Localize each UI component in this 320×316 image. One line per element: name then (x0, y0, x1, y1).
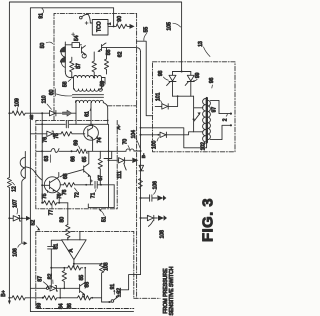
wire 53 to Q73 base (25, 167, 42, 180)
transistor Q74 (84, 125, 99, 140)
svg-text:55: 55 (144, 27, 150, 33)
node junction 160 (108, 159, 110, 161)
wire node feed vertical (41, 113, 43, 203)
svg-text:108: 108 (159, 230, 165, 239)
resistor R86 (60, 296, 101, 300)
wire dashed to pressure switch text (134, 297, 160, 299)
wire secondary leads (210, 100, 231, 139)
svg-text:SENSITIVE SWITCH: SENSITIVE SWITCH (169, 266, 175, 315)
arrow flow indicator 1 (63, 110, 72, 116)
svg-text:77: 77 (48, 210, 54, 216)
transistor Q56 emitter arrow (98, 44, 104, 52)
node junction 42-151 (41, 150, 43, 152)
svg-text:FIG. 3: FIG. 3 (199, 198, 216, 242)
TCO box U-TCO (90, 22, 92, 24)
node junction lead top (75, 100, 77, 102)
svg-text:62: 62 (118, 51, 124, 57)
svg-text:100: 100 (152, 140, 158, 149)
thyristor D111 (109, 158, 132, 170)
capacitor C70 (66, 121, 68, 128)
resistor R-row151 (77, 149, 88, 153)
switch S92 lever (114, 296, 119, 300)
wire op-amp output (74, 260, 102, 264)
svg-text:88: 88 (84, 282, 90, 288)
node junction rail 218 (140, 217, 142, 219)
svg-text:82: 82 (48, 273, 54, 279)
transformer T54 primary winding blobs (64, 42, 66, 71)
resistor R90 (114, 24, 130, 28)
svg-text:96: 96 (209, 77, 215, 83)
svg-text:102: 102 (200, 142, 206, 151)
wire staircase to pressure switch (120, 275, 140, 297)
svg-text:105: 105 (167, 22, 173, 31)
svg-text:80: 80 (59, 217, 65, 223)
transistor Q64 (60, 151, 90, 185)
svg-text:71: 71 (91, 192, 97, 198)
svg-text:12: 12 (11, 186, 17, 192)
svg-text:101: 101 (155, 92, 161, 101)
resistor R12 in rail (7, 178, 11, 188)
svg-text:50: 50 (40, 43, 46, 49)
dashed box 96 ignition module (153, 62, 236, 152)
svg-text:B-: B- (141, 153, 147, 158)
capacitor C106 (141, 195, 157, 201)
svg-text:1: 1 (106, 22, 111, 25)
resistor R84v (62, 268, 66, 289)
svg-text:59: 59 (100, 81, 106, 87)
svg-text:60: 60 (49, 89, 55, 95)
node cross mark (72, 33, 75, 36)
resistor R72 (64, 183, 93, 187)
wire feed from dashed line (137, 41, 153, 116)
transformer T97 core (206, 98, 208, 142)
node junction 58 left (71, 77, 73, 79)
wire row 184.8 (60, 184, 63, 186)
svg-text:89: 89 (37, 303, 43, 309)
node junctions row151 (108, 150, 110, 152)
svg-text:103: 103 (104, 262, 110, 271)
resistor R-base74 (61, 132, 85, 136)
transistor Q55 (82, 46, 86, 55)
node junction 202 right (58, 202, 60, 204)
wire bend box51 corner (88, 185, 114, 208)
wire zener row 288 (30, 287, 50, 289)
svg-text:106: 106 (152, 181, 158, 190)
transformer T59 primary (74, 78, 106, 90)
dashed box 50 partial bottom (108, 105, 137, 107)
svg-text:65: 65 (82, 156, 88, 162)
svg-text:57: 57 (76, 63, 82, 69)
arrow flow indicator 107 (26, 216, 31, 221)
svg-text:68: 68 (63, 173, 69, 179)
capacitor C54a (72, 43, 80, 48)
svg-text:52: 52 (31, 220, 37, 226)
svg-text:109: 109 (15, 98, 21, 107)
svg-text:13: 13 (198, 41, 204, 47)
node junction 58 right (93, 77, 95, 79)
arrow output 106 (157, 195, 166, 201)
svg-text:58: 58 (62, 81, 68, 87)
wire path 127 to core bottom (141, 128, 207, 148)
svg-text:90: 90 (117, 16, 123, 22)
resistor R89 (43, 296, 61, 300)
svg-text:106: 106 (13, 248, 19, 257)
thyristor D99 (185, 72, 194, 97)
wire osc top (65, 44, 81, 46)
svg-text:2: 2 (223, 118, 229, 121)
switch S93 (80, 16, 83, 19)
svg-text:84: 84 (59, 303, 65, 309)
diode D107 (8, 217, 10, 219)
node junction base (41, 184, 43, 186)
arrow into primary (194, 115, 199, 121)
wire TCO to node (108, 25, 114, 27)
wire op-amp inputs (68, 231, 80, 239)
wire 61 leads (76, 103, 108, 125)
node junction 184 (85, 184, 87, 186)
node junction 124 crossings (41, 123, 43, 125)
svg-text:110: 110 (42, 95, 48, 103)
winding 58 (74, 76, 102, 78)
loop component 63 (51, 149, 59, 153)
wire 108 drop (104, 124, 112, 160)
zener D76 (47, 131, 61, 136)
wire B+ rail loop (9, 2, 181, 302)
svg-text:74: 74 (97, 137, 103, 143)
capacitor C71 (95, 181, 114, 188)
svg-text:A: A (68, 248, 74, 252)
diode D110 (42, 111, 61, 116)
winding 61 secondary (76, 100, 104, 102)
svg-text:A-: A- (116, 124, 122, 129)
wire 53 bottom stub arrow (22, 218, 24, 243)
wire feedback row (51, 264, 74, 268)
resistor R67 (98, 151, 102, 185)
wire collector Q56 to long rail (102, 43, 141, 52)
wire SCR bottoms (173, 96, 194, 106)
svg-text:76: 76 (43, 137, 49, 143)
wire 60 vertical (59, 288, 61, 298)
thyristor D98 (167, 72, 176, 97)
wire switch row (102, 301, 112, 303)
wire row 133.8 from frame (30, 133, 46, 135)
svg-text:67: 67 (98, 175, 104, 181)
wire frame drop to TCO node (113, 8, 115, 27)
zener D82 (50, 286, 80, 291)
svg-text:85: 85 (79, 275, 85, 281)
node B+ arrow tip (8, 301, 11, 305)
svg-text:FROM PRESSURE: FROM PRESSURE (163, 268, 169, 314)
transformer T97 primary winding (203, 99, 206, 142)
wire row 202.8 (42, 202, 43, 204)
svg-text:70: 70 (123, 139, 129, 145)
wire corner down to R80 (67, 203, 69, 225)
svg-text:51: 51 (101, 216, 107, 222)
wire row 124 (36, 123, 108, 125)
node junction TCO (113, 25, 115, 27)
wire bus primary (194, 96, 203, 132)
svg-text:86: 86 (67, 303, 73, 309)
svg-text:66: 66 (71, 156, 77, 162)
resistor R57b (92, 52, 96, 78)
node junction 110 (41, 112, 43, 114)
wire inner ground frame (30, 8, 133, 312)
dashed box 51 amplifier (36, 120, 117, 208)
svg-text:72: 72 (75, 192, 81, 198)
inductor L70 (126, 149, 134, 151)
TCO plus terminal (85, 22, 88, 25)
svg-text:69: 69 (73, 140, 79, 146)
transistor Q73 (44, 177, 60, 193)
svg-text:B+: B+ (1, 290, 7, 297)
capacitor C81 (48, 240, 62, 268)
node arrow into dashed line (130, 24, 135, 29)
switch S92 circle (111, 300, 114, 303)
diode D-rail (139, 165, 144, 171)
svg-text:54: 54 (74, 35, 80, 41)
svg-text:104: 104 (131, 130, 137, 139)
node junction 107 (21, 217, 23, 219)
svg-text:99: 99 (195, 72, 201, 78)
svg-text:63: 63 (44, 156, 50, 162)
node junction rail bottom (8, 297, 10, 299)
thyristor D108 (141, 215, 158, 226)
transformer T59 core 60 (73, 95, 104, 98)
resistor R103 (99, 264, 103, 302)
wire 108 to bend (108, 160, 110, 207)
svg-text:81: 81 (54, 243, 60, 249)
svg-text:61: 61 (85, 111, 91, 117)
svg-text:97: 97 (212, 107, 218, 113)
resistor R57 (70, 57, 74, 77)
wire long vertical rail (140, 52, 142, 275)
svg-text:91: 91 (110, 284, 116, 290)
resistor R77row (44, 201, 68, 205)
node output terminals (230, 113, 232, 115)
wire module top row (173, 71, 191, 73)
svg-text:TCO: TCO (96, 21, 102, 32)
svg-text:91: 91 (38, 13, 44, 19)
winding 53 pickup coil (22, 152, 26, 219)
node junction 42 bottom (42, 297, 44, 299)
svg-text:98: 98 (158, 70, 164, 76)
resistor R_bplus (9, 296, 42, 300)
svg-text:75: 75 (42, 193, 48, 199)
svg-text:48: 48 (29, 114, 34, 120)
arrow flow indicator 111 (132, 158, 138, 163)
resistor R83 (68, 266, 83, 270)
node junction rail 198 (140, 197, 142, 199)
dashed box 52 comparator (36, 231, 134, 308)
node junction rail 109 (8, 112, 10, 114)
transformer T97 secondary winding (208, 100, 211, 139)
diode D100 (141, 132, 194, 138)
resistor R-osc mid (104, 48, 108, 74)
dashed box 50 oscillator (36, 13, 235, 308)
node junction 202 left (41, 202, 43, 204)
op-amp A (62, 240, 87, 260)
svg-text:75: 75 (54, 133, 60, 139)
svg-text:111: 111 (117, 171, 123, 179)
node junction 64-288 (63, 287, 65, 289)
wire left drop (50, 268, 52, 289)
wire row 151 (36, 150, 141, 152)
arrow output 108 (158, 215, 167, 221)
wire dashed pressure sense line vertical (136, 13, 138, 298)
resistor R80 (66, 225, 70, 240)
node junction B+ module entry (181, 71, 183, 73)
svg-text:87: 87 (38, 276, 44, 282)
svg-text:107: 107 (12, 199, 18, 208)
node junction rail151 (140, 150, 142, 152)
resistor R-rail vertical (138, 179, 142, 189)
transistor Q85 (80, 268, 86, 298)
diode D101 (155, 104, 177, 109)
resistor R109 (9, 111, 42, 115)
svg-text:92: 92 (116, 288, 122, 294)
node junction 60-297 (59, 297, 61, 299)
svg-text:78: 78 (57, 193, 63, 199)
